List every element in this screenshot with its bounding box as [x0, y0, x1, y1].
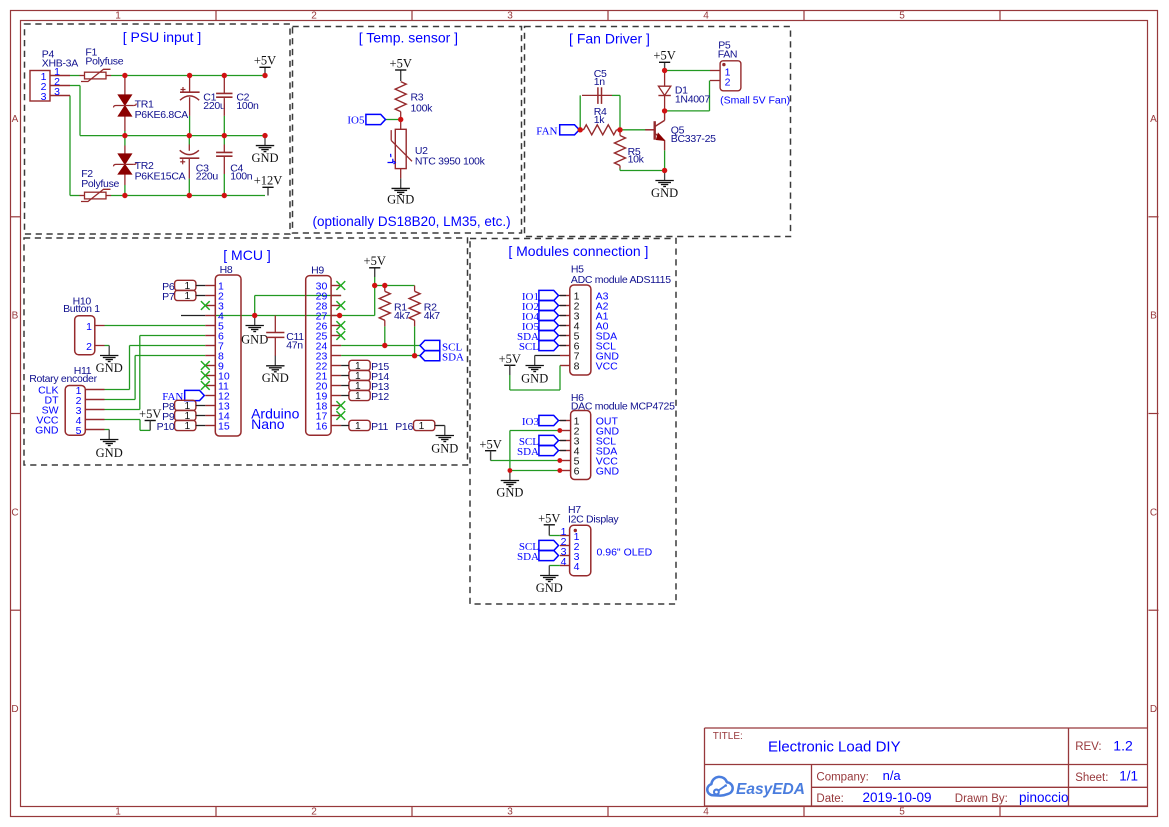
svg-text:2019-10-09: 2019-10-09	[863, 790, 932, 805]
svg-text:+5V: +5V	[139, 407, 161, 421]
svg-text:2: 2	[311, 807, 317, 818]
svg-text:D: D	[1150, 704, 1157, 715]
svg-text:[ Temp. sensor ]: [ Temp. sensor ]	[359, 30, 458, 46]
svg-text:GND: GND	[35, 425, 59, 437]
svg-text:1: 1	[355, 421, 361, 432]
svg-text:H9: H9	[311, 265, 324, 277]
svg-text:D: D	[11, 704, 18, 715]
svg-text:+5V: +5V	[390, 56, 412, 70]
svg-text:GND: GND	[496, 486, 523, 500]
svg-text:10k: 10k	[628, 154, 645, 166]
svg-text:1k: 1k	[594, 114, 606, 126]
svg-text:6: 6	[574, 466, 580, 478]
svg-text:P16: P16	[395, 421, 413, 433]
svg-text:SDA: SDA	[517, 446, 539, 458]
svg-text:GND: GND	[262, 371, 289, 385]
svg-text:Rotary encoder: Rotary encoder	[29, 373, 97, 385]
svg-text:0.96" OLED: 0.96" OLED	[597, 546, 653, 558]
svg-text:GND: GND	[96, 446, 123, 460]
svg-text:+12V: +12V	[254, 174, 283, 188]
svg-text:DAC module MCP4725: DAC module MCP4725	[571, 401, 675, 413]
svg-text:Polyfuse: Polyfuse	[81, 178, 119, 190]
svg-text:Sheet:: Sheet:	[1075, 772, 1108, 784]
svg-text:P10: P10	[157, 421, 175, 433]
svg-text:4k7: 4k7	[394, 310, 410, 322]
svg-text:P7: P7	[162, 291, 175, 303]
svg-text:15: 15	[218, 421, 230, 433]
svg-text:SDA: SDA	[517, 551, 539, 563]
svg-text:IO3: IO3	[522, 416, 540, 428]
svg-text:+5V: +5V	[653, 49, 675, 63]
svg-text:GND: GND	[596, 466, 620, 478]
svg-text:ADC module ADS1115: ADC module ADS1115	[571, 274, 671, 286]
svg-text:220u: 220u	[196, 171, 219, 183]
svg-text:[ Modules connection ]: [ Modules connection ]	[508, 243, 648, 259]
svg-text:2: 2	[725, 76, 731, 88]
svg-text:GND: GND	[536, 581, 563, 595]
svg-text:GND: GND	[251, 151, 278, 165]
svg-text:FAN: FAN	[718, 49, 738, 61]
svg-text:1: 1	[86, 321, 92, 333]
svg-text:1: 1	[184, 421, 190, 432]
svg-text:2: 2	[311, 11, 317, 22]
svg-text:GND: GND	[431, 441, 458, 455]
svg-text:1/1: 1/1	[1119, 769, 1138, 784]
svg-text:[ Fan Driver ]: [ Fan Driver ]	[569, 31, 650, 47]
svg-text:5: 5	[899, 11, 905, 22]
svg-text:100k: 100k	[411, 102, 434, 114]
svg-text:I2C Display: I2C Display	[568, 514, 619, 526]
svg-text:5: 5	[899, 807, 905, 818]
svg-text:C: C	[11, 507, 18, 518]
svg-text:+5V: +5V	[254, 54, 276, 68]
svg-text:GND: GND	[387, 193, 414, 207]
svg-text:1n: 1n	[594, 76, 606, 88]
svg-text:1: 1	[184, 291, 190, 302]
svg-text:P12: P12	[371, 391, 389, 403]
svg-text:IO5: IO5	[347, 115, 365, 127]
svg-text:+5V: +5V	[538, 511, 560, 525]
svg-text:C: C	[1150, 507, 1157, 518]
svg-text:GND: GND	[651, 186, 678, 200]
svg-text:P6KE6.8CA: P6KE6.8CA	[135, 109, 189, 121]
svg-text:Electronic Load DIY: Electronic Load DIY	[768, 738, 901, 755]
svg-text:+5V: +5V	[364, 254, 386, 268]
svg-text:8: 8	[574, 361, 580, 373]
svg-text:EasyEDA: EasyEDA	[736, 781, 805, 798]
svg-text:4k7: 4k7	[424, 310, 440, 322]
svg-text:GND: GND	[241, 332, 268, 346]
svg-text:[ PSU input ]: [ PSU input ]	[123, 29, 202, 45]
svg-text:Drawn By:: Drawn By:	[955, 793, 1008, 805]
svg-text:3: 3	[507, 11, 513, 22]
svg-text:3: 3	[507, 807, 513, 818]
svg-text:Date:: Date:	[816, 793, 844, 805]
svg-text:+5V: +5V	[479, 437, 501, 451]
svg-text:Polyfuse: Polyfuse	[85, 55, 123, 67]
svg-text:REV:: REV:	[1075, 741, 1101, 753]
svg-text:4: 4	[703, 11, 709, 22]
svg-text:NTC 3950 100k: NTC 3950 100k	[415, 156, 486, 168]
svg-text:A: A	[1150, 114, 1157, 125]
svg-text:Company:: Company:	[816, 772, 868, 784]
svg-text:TITLE:: TITLE:	[713, 731, 743, 742]
svg-text:Button 1: Button 1	[63, 303, 100, 315]
svg-text:4: 4	[561, 556, 567, 568]
svg-text:220u: 220u	[203, 100, 226, 112]
svg-text:P11: P11	[371, 421, 388, 433]
svg-text:SDA: SDA	[442, 352, 464, 364]
svg-text:(Small 5V Fan): (Small 5V Fan)	[720, 94, 790, 106]
svg-text:100n: 100n	[236, 100, 259, 112]
svg-text:VCC: VCC	[596, 361, 619, 373]
svg-text:3: 3	[41, 91, 47, 103]
svg-text:B: B	[1150, 311, 1157, 322]
svg-text:SCL: SCL	[519, 341, 539, 353]
svg-text:(optionally DS18B20, LM35, etc: (optionally DS18B20, LM35, etc.)	[313, 214, 511, 229]
svg-text:2: 2	[86, 341, 92, 353]
svg-text:100n: 100n	[230, 171, 253, 183]
svg-text:n/a: n/a	[883, 768, 902, 783]
svg-text:16: 16	[316, 421, 328, 433]
svg-text:47n: 47n	[286, 339, 303, 351]
svg-text:+5V: +5V	[499, 352, 521, 366]
svg-text:1: 1	[115, 807, 121, 818]
svg-text:pinoccio: pinoccio	[1019, 790, 1069, 805]
svg-text:H8: H8	[220, 264, 233, 276]
svg-text:B: B	[12, 311, 19, 322]
svg-text:A: A	[12, 114, 19, 125]
svg-text:5: 5	[76, 425, 82, 437]
svg-text:GND: GND	[521, 371, 548, 385]
svg-text:P6KE15CA: P6KE15CA	[135, 170, 186, 182]
svg-text:1: 1	[355, 391, 361, 402]
svg-text:3: 3	[54, 86, 60, 98]
svg-text:Nano: Nano	[251, 416, 285, 432]
svg-text:4: 4	[703, 807, 709, 818]
svg-text:XHB-3A: XHB-3A	[42, 57, 78, 69]
svg-text:1.2: 1.2	[1113, 738, 1133, 754]
svg-text:1: 1	[115, 11, 121, 22]
svg-text:1N4007: 1N4007	[675, 94, 710, 106]
svg-text:4: 4	[574, 561, 580, 573]
svg-text:GND: GND	[96, 361, 123, 375]
svg-text:[ MCU ]: [ MCU ]	[223, 247, 270, 263]
svg-text:BC337-25: BC337-25	[671, 133, 716, 145]
svg-text:1: 1	[419, 421, 425, 432]
svg-text:FAN: FAN	[536, 125, 557, 137]
